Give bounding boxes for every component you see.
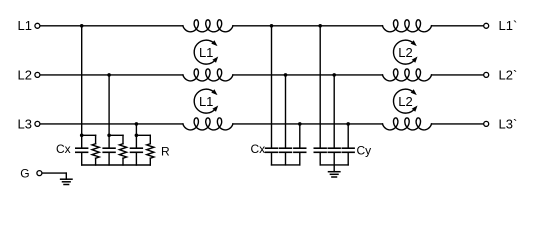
wire Cy common bus	[320, 164, 348, 166]
svg-text:L2`: L2`	[499, 67, 518, 82]
junction dot Cx/R branch 1	[80, 134, 84, 138]
terminal L2 circle	[35, 72, 40, 77]
resistor R (branch 2) zigzag	[119, 144, 126, 159]
wire G to ground	[42, 172, 66, 174]
ground (Cy)	[329, 171, 340, 173]
wire L3 left segment	[40, 123, 183, 125]
capacitor Cx (branch 2) plates	[103, 147, 115, 149]
svg-text:Cx: Cx	[56, 142, 71, 156]
svg-text:L2: L2	[18, 67, 32, 82]
capacitor Cx (branch 1) plates	[76, 147, 88, 149]
choke L2 winding-sense arrow circle	[393, 40, 414, 64]
junction dot on L2 line (middle Cx)	[284, 73, 288, 77]
inductor choke L1 winding row 1 coil	[183, 20, 233, 32]
resistor R (branch 3) zigzag	[147, 144, 154, 159]
junction dot Cx/R branch 3	[135, 134, 139, 138]
choke L1 winding-sense arrow circle	[194, 89, 215, 113]
svg-text:L1: L1	[199, 45, 213, 60]
capacitor Cx (middle group 3) plates	[294, 147, 306, 149]
wire drop from L1 to Cy	[319, 26, 321, 148]
wire drop from L3 to middle Cx	[299, 124, 301, 148]
svg-text:L2: L2	[398, 45, 412, 60]
svg-text:L1: L1	[199, 94, 213, 109]
wire left group common bus	[82, 164, 151, 166]
capacitor Cx (branch 3) plates	[131, 147, 143, 149]
junction dot on L3 line (Cy)	[346, 122, 350, 126]
inductor choke L1 winding row 2 coil	[183, 69, 233, 81]
terminal L1` circle	[484, 23, 489, 28]
junction dot on L1 line	[80, 24, 84, 28]
wire middle Cx1 bottom lead	[271, 153, 273, 165]
capacitor Cx (middle group 1) plates	[266, 147, 278, 149]
wire junction to capacitor Cx1	[81, 135, 83, 147]
inductor choke L2 winding row 1 coil	[383, 20, 432, 32]
wire capacitor Cx3 bottom lead	[135, 153, 137, 165]
wire drop from L3 to Cx/R junction	[135, 124, 137, 135]
wire L1 middle segment	[233, 25, 383, 27]
capacitor Cy (group 1) plates	[314, 147, 326, 149]
terminal L2` circle	[484, 72, 489, 77]
wire junction to resistor R1 top	[82, 134, 96, 136]
svg-text:L1`: L1`	[499, 18, 518, 33]
junction dot on L3 line (middle Cx)	[298, 122, 302, 126]
wire L3 middle segment	[233, 123, 383, 125]
junction dot on L1 line (middle Cx)	[270, 24, 274, 28]
wire junction to resistor R2 top	[109, 134, 123, 136]
wire L2 middle segment	[233, 74, 383, 76]
wire drop from L2 to Cx/R junction	[108, 75, 110, 135]
wire junction to capacitor Cx3	[135, 135, 137, 147]
svg-text:Cx: Cx	[251, 142, 266, 156]
inductor choke L2 winding row 2 coil	[383, 69, 432, 81]
wire junction to capacitor Cx2	[108, 135, 110, 147]
terminal L1 circle	[35, 23, 40, 28]
capacitor Cx (middle group 2) plates	[280, 147, 292, 149]
terminal G circle	[37, 171, 42, 176]
wire drop from L2 to middle Cx	[285, 75, 287, 148]
junction dot on L2 line (Cy)	[332, 73, 336, 77]
capacitor Cy (group 3) plates	[342, 147, 354, 149]
wire Cy1 bottom lead	[319, 153, 321, 165]
junction dot on L2 line	[107, 73, 111, 77]
wire L3 right segment	[432, 123, 484, 125]
wire drop from L3 to Cy	[347, 124, 349, 148]
wire drop from L1 to middle Cx	[271, 26, 273, 148]
inductor choke L1 winding row 3 coil	[183, 118, 233, 130]
wire L2 right segment	[432, 74, 484, 76]
wire capacitor Cx2 bottom lead	[108, 153, 110, 165]
wire L1 right segment	[432, 25, 484, 27]
choke L1 winding-sense arrow circle	[194, 40, 215, 64]
wire resistor R1 bottom lead	[95, 158, 97, 165]
wire Cy2 bottom lead	[333, 153, 335, 165]
wire junction to resistor R3 top	[136, 134, 150, 136]
wire Cy bus to ground stem	[333, 165, 335, 172]
inductor choke L2 winding row 3 coil	[383, 118, 432, 130]
wire resistor R2 bottom lead	[122, 158, 124, 165]
junction dot on L3 line	[135, 122, 139, 126]
junction dot on L1 line (Cy)	[318, 24, 322, 28]
terminal L3` circle	[484, 121, 489, 126]
junction dot Cx/R branch 2	[107, 134, 111, 138]
svg-text:L3: L3	[18, 116, 32, 131]
wire middle Cx3 bottom lead	[299, 153, 301, 165]
wire resistor R3 bottom lead	[149, 158, 151, 165]
svg-text:Cy: Cy	[357, 144, 372, 158]
terminal L3 circle	[35, 121, 40, 126]
wire L2 left segment	[40, 74, 183, 76]
svg-text:L1: L1	[18, 18, 32, 33]
wire Cy3 bottom lead	[347, 153, 349, 165]
svg-text:G: G	[20, 166, 29, 180]
svg-text:L3`: L3`	[499, 116, 518, 131]
resistor R (branch 1) zigzag	[92, 144, 99, 159]
wire drop from L1 to Cx/R junction	[81, 26, 83, 136]
wire middle Cx2 bottom lead	[285, 153, 287, 165]
wire L1 left segment	[40, 25, 183, 27]
capacitor Cy (group 2) plates	[328, 147, 340, 149]
wire capacitor Cx1 bottom lead	[81, 153, 83, 165]
wire middle Cx common bus	[272, 164, 300, 166]
wire drop from L2 to Cy	[333, 75, 335, 148]
svg-text:R: R	[161, 145, 170, 159]
choke L2 winding-sense arrow circle	[393, 89, 414, 113]
ground (G)	[61, 178, 72, 180]
svg-text:L2: L2	[398, 94, 412, 109]
